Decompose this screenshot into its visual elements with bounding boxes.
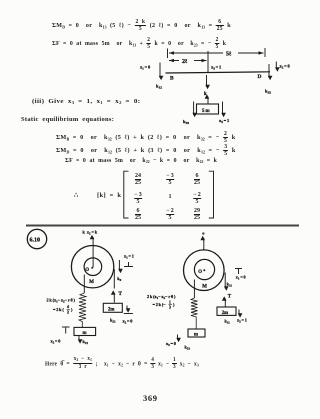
svg-text:O: O xyxy=(85,268,89,273)
svg-text:): ) xyxy=(71,307,73,312)
matrix bracket right xyxy=(209,171,214,218)
beam xyxy=(166,72,271,73)
svg-text:k: k xyxy=(204,92,207,97)
datum right of 2m xyxy=(124,306,133,314)
svg-text:k31: k31 xyxy=(185,345,191,351)
svg-text:x3 = 1: x3 = 1 xyxy=(219,118,229,124)
svg-text:T: T xyxy=(119,292,123,297)
left force arrow k12 xyxy=(159,63,161,79)
matrix entry r3c2 xyxy=(166,208,174,221)
svg-text:k21: k21 xyxy=(110,318,116,324)
svg-text:2 k (x1− x2− r θ ): 2 k (x1− x2− r θ ) xyxy=(47,298,76,304)
svg-text:2ℓ: 2ℓ xyxy=(182,59,188,65)
svg-text:4: 4 xyxy=(67,305,69,309)
disp arrow xyxy=(118,260,120,271)
svg-text:x2 = 0: x2 = 0 xyxy=(51,339,61,345)
svg-text:1: 1 xyxy=(169,300,171,304)
right end arrow xyxy=(268,64,270,78)
matrix entry r2c2 xyxy=(169,194,172,200)
svg-text:m: m xyxy=(83,331,87,336)
bottom formula xyxy=(45,356,199,370)
svg-text:x1 = 0: x1 = 0 xyxy=(140,65,151,71)
svg-text:2m: 2m xyxy=(222,311,228,316)
datum right fig xyxy=(235,269,242,275)
datum left of box xyxy=(62,327,70,334)
svg-text:2 k (x1− x2− r θ ): 2 k (x1− x2− r θ ) xyxy=(147,294,176,300)
arrow under box m right xyxy=(177,335,179,341)
svg-text:M: M xyxy=(89,280,94,285)
disp arrow right of box xyxy=(238,310,240,316)
matrix entry r1c1 xyxy=(135,173,141,186)
svg-text:x2 = 0: x2 = 0 xyxy=(280,64,291,70)
box 2m xyxy=(103,303,122,312)
center dot xyxy=(203,269,205,271)
fbd left arrow xyxy=(193,102,195,116)
svg-text:k x2 = k: k x2 = k xyxy=(83,230,98,236)
pulley inner circle xyxy=(194,259,214,279)
fbd box 5m xyxy=(197,104,219,114)
left rope xyxy=(193,280,195,299)
svg-text:): ) xyxy=(173,302,175,307)
right short arrow xyxy=(275,62,277,70)
svg-text:k33: k33 xyxy=(183,119,189,125)
matrix entry r1c3 xyxy=(194,173,200,186)
svg-text:= 2 k (: = 2 k ( xyxy=(53,307,64,312)
svg-text:T: T xyxy=(228,295,232,300)
equation line 1: sum M_D xyxy=(52,19,231,32)
box m (left) xyxy=(74,327,96,335)
equation line 4: sum M_D xyxy=(56,144,236,157)
fbd up arrow xyxy=(207,97,209,105)
spring right fig xyxy=(191,298,198,329)
dim line 2l xyxy=(169,59,207,62)
static equilibrium label xyxy=(21,116,114,123)
svg-text:o: o xyxy=(202,231,205,236)
matrix bracket left xyxy=(124,171,129,218)
svg-text:x1 = 0: x1 = 0 xyxy=(236,275,246,281)
rope to ceiling xyxy=(92,237,94,267)
svg-text:x1 = 1: x1 = 1 xyxy=(124,254,134,260)
T arrow xyxy=(113,293,115,303)
spring left xyxy=(79,293,86,327)
svg-text:x3 = 1: x3 = 1 xyxy=(211,65,221,71)
matrix entry r3c3 xyxy=(194,208,200,221)
matrix lead-in xyxy=(74,191,121,199)
equation line 5: sum F at mass xyxy=(65,157,217,164)
right rope xyxy=(113,269,115,289)
svg-text:k21: k21 xyxy=(83,339,89,345)
svg-text:k32: k32 xyxy=(265,89,271,95)
middle force arrow k xyxy=(206,75,208,87)
arrow k21 under box xyxy=(78,336,80,342)
svg-text:3: 3 xyxy=(169,306,171,310)
rope to ceiling xyxy=(203,238,205,251)
pulley outer circle xyxy=(71,246,113,288)
right rope xyxy=(224,273,226,289)
svg-text:5ℓ: 5ℓ xyxy=(226,52,232,58)
problem circle 6.10 xyxy=(27,229,46,248)
center dot xyxy=(91,267,93,269)
svg-text:k11: k11 xyxy=(227,282,233,288)
pulley outer circle xyxy=(184,250,225,291)
matrix entry r2c3 xyxy=(193,192,201,205)
box m (right fig) xyxy=(188,329,205,337)
svg-text:B: B xyxy=(170,76,174,82)
svg-text:O: O xyxy=(198,270,202,275)
svg-text:D: D xyxy=(258,74,262,80)
matrix entry r2c1 xyxy=(134,192,142,205)
svg-text:k0: k0 xyxy=(117,276,121,282)
T arrow right fig xyxy=(224,299,226,307)
svg-text:2m: 2m xyxy=(108,307,114,312)
svg-text:k12: k12 xyxy=(156,84,162,90)
pulley inner circle xyxy=(84,258,102,276)
svg-text:x2 = 1: x2 = 1 xyxy=(237,318,247,324)
matrix entry r1c2 xyxy=(166,173,174,186)
datum right xyxy=(124,262,133,267)
svg-text:6.10: 6.10 xyxy=(30,238,41,244)
fbd right arrow xyxy=(222,102,224,116)
svg-text:3: 3 xyxy=(67,310,69,314)
svg-text:= 2 k (−: = 2 k (− xyxy=(153,302,167,307)
svg-text:k11: k11 xyxy=(225,319,231,325)
svg-text:x3 = 0: x3 = 0 xyxy=(166,341,176,347)
box 2m right fig xyxy=(217,307,236,315)
svg-text:M: M xyxy=(202,284,207,289)
equation line 3: sum M_B xyxy=(56,131,235,144)
middle tick xyxy=(207,51,209,73)
svg-text:m: m xyxy=(194,333,198,338)
equation line 2: sum F xyxy=(52,37,226,50)
matrix entry r3c1 xyxy=(135,208,141,221)
section divider xyxy=(26,225,299,227)
dim line 5l xyxy=(168,48,266,58)
svg-text:5 m: 5 m xyxy=(202,109,211,114)
left rope xyxy=(83,275,85,294)
(iii) give x3=1 line xyxy=(32,98,140,105)
page number 369 xyxy=(143,393,158,403)
svg-text:x2 = 0: x2 = 0 xyxy=(123,319,133,325)
